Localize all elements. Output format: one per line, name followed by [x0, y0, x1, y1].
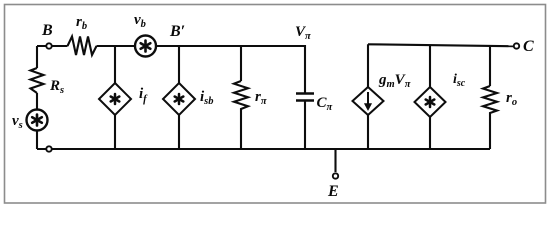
- svg-text:ro: ro: [506, 90, 517, 108]
- wire: r_pi branch bottom: [240, 112, 242, 149]
- wire: i_f branch: [114, 46, 116, 149]
- svg-text:E: E: [327, 183, 339, 200]
- node bottom-left open circle: [46, 146, 51, 151]
- node B open circle: [46, 43, 51, 48]
- wire: left branch B down to R_s: [36, 46, 38, 68]
- svg-text:Cπ: Cπ: [317, 95, 333, 113]
- node C open circle: [514, 43, 519, 48]
- wire: R_s to v_s source: [36, 93, 38, 112]
- asterisk in v_s: [32, 115, 42, 126]
- controlled source g_mV_pi diamond: [353, 87, 384, 115]
- asterisk in i_f: [111, 94, 120, 104]
- svg-text:vs: vs: [12, 113, 23, 131]
- wire: r_pi branch top: [240, 46, 242, 81]
- svg-text:rb: rb: [76, 14, 87, 32]
- wire: top-left rail from B corner to r_b: [37, 45, 68, 47]
- wire: right top rail to node C: [368, 44, 514, 46]
- svg-text:C: C: [523, 38, 534, 55]
- svg-text:B: B: [41, 22, 53, 39]
- current source i_sc diamond: [415, 87, 446, 117]
- wire: r_b to V_pi corner and down to C_pi: [97, 46, 306, 93]
- asterisk in v_b: [141, 41, 151, 52]
- svg-text:Rs: Rs: [49, 78, 64, 96]
- current source i_f diamond: [99, 83, 131, 115]
- svg-text:B′: B′: [169, 23, 185, 40]
- svg-text:vb: vb: [134, 12, 146, 30]
- svg-text:isc: isc: [453, 72, 466, 89]
- wire: v_s to bottom rail corner: [36, 128, 38, 149]
- asterisk in i_sb: [175, 94, 184, 104]
- wire: emitter E drop: [334, 149, 336, 172]
- asterisk in i_sc: [426, 97, 435, 107]
- resistor R_s: [31, 68, 44, 93]
- svg-text:rπ: rπ: [255, 89, 267, 107]
- wire: g_m V_pi branch: [367, 44, 369, 149]
- svg-text:isb: isb: [200, 89, 214, 107]
- svg-text:gmVπ: gmVπ: [378, 72, 411, 90]
- wire: bottom rail: [37, 148, 490, 150]
- resistor r_o: [483, 86, 497, 115]
- source v_b circle: [135, 36, 156, 57]
- wire: i_sb branch: [178, 46, 180, 149]
- wire: i_sc branch: [429, 45, 431, 149]
- wire: r_o branch top: [489, 46, 491, 86]
- node E open circle: [333, 173, 338, 178]
- svg-text:if: if: [139, 86, 148, 105]
- wire: C_pi to bottom rail: [304, 101, 306, 150]
- svg-text:Vπ: Vπ: [295, 24, 311, 42]
- arrow in g_mV_pi diamond: [364, 92, 371, 111]
- current source i_sb diamond: [163, 83, 195, 115]
- source v_s circle: [27, 110, 48, 131]
- resistor r_pi: [234, 81, 248, 112]
- capacitor C_pi plates: [296, 92, 314, 95]
- resistor r_b: [68, 37, 97, 56]
- wire: r_o branch bottom: [489, 115, 491, 149]
